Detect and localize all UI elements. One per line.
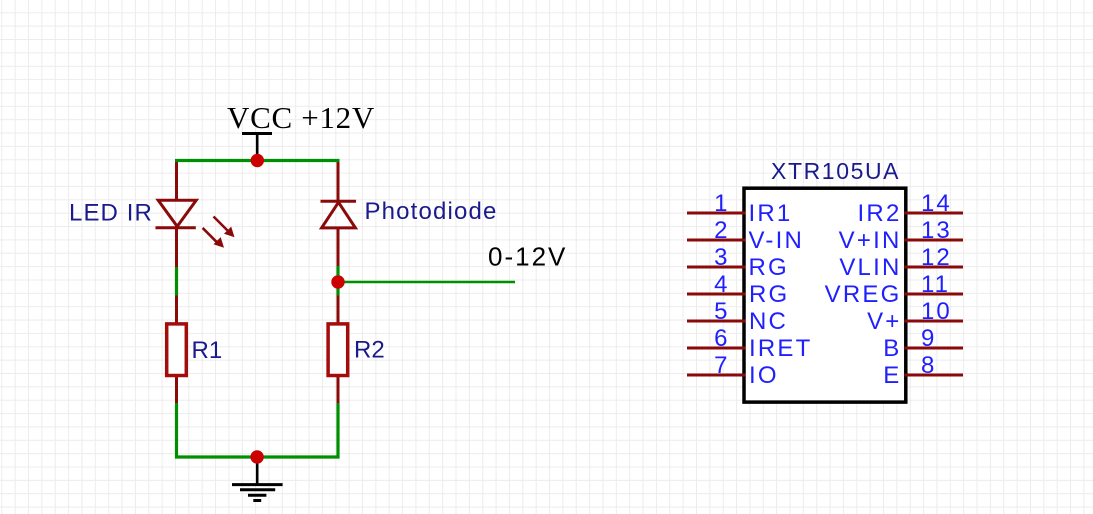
resistor R2 top pin: [337, 296, 340, 325]
svg-text:7: 7: [714, 352, 729, 379]
svg-text:IR2: IR2: [858, 200, 902, 227]
junction 0-12V tap: [331, 275, 344, 288]
svg-text:VLIN: VLIN: [839, 254, 901, 281]
svg-text:2: 2: [714, 217, 729, 244]
svg-text:9: 9: [921, 325, 936, 352]
junction VCC node: [251, 154, 264, 167]
resistor R2 body: [328, 324, 348, 376]
pin 13 (V+IN): [839, 217, 963, 254]
svg-text:11: 11: [921, 271, 950, 298]
svg-text:1: 1: [714, 190, 729, 217]
IC U1 body: [744, 188, 906, 402]
pin 8 (E): [883, 352, 963, 389]
pin 12 (VLIN): [839, 244, 963, 281]
svg-text:8: 8: [921, 352, 936, 379]
pin 7 (IO): [687, 352, 779, 389]
photodiode body (cathode bar + triangle): [321, 201, 357, 228]
pin 11 (VREG): [825, 271, 963, 308]
LED "LED IR" anode pin: [175, 159, 178, 201]
svg-text:R2: R2: [354, 336, 385, 363]
photodiode anode pin: [337, 228, 340, 266]
svg-text:VCC +12V: VCC +12V: [227, 100, 375, 135]
svg-text:3: 3: [714, 244, 729, 271]
svg-text:RG: RG: [749, 254, 789, 281]
pin 10 (V+): [867, 298, 963, 335]
wire 0-12V tap horizontal: [338, 281, 515, 284]
resistor R1 top pin: [175, 296, 178, 325]
svg-text:13: 13: [921, 217, 952, 244]
wire bottom ground rail: [175, 455, 340, 458]
pin 4 (RG): [687, 271, 789, 308]
svg-text:V+IN: V+IN: [839, 227, 902, 254]
svg-text:LED IR: LED IR: [69, 200, 153, 227]
svg-text:RG: RG: [749, 281, 789, 308]
pin 1 (IR1): [687, 190, 792, 227]
svg-text:4: 4: [714, 271, 729, 298]
resistor R1 body: [167, 324, 187, 376]
svg-text:NC: NC: [749, 308, 788, 335]
pin 2 (V-IN): [687, 217, 804, 254]
LED light emission arrows: [203, 217, 235, 248]
svg-text:E: E: [883, 362, 901, 389]
svg-text:Photodiode: Photodiode: [365, 198, 498, 225]
svg-text:VREG: VREG: [825, 281, 902, 308]
pin 9 (B): [883, 325, 963, 362]
wire R2 to ground rail: [336, 403, 339, 459]
svg-text:V-IN: V-IN: [749, 227, 804, 254]
svg-text:IRET: IRET: [749, 335, 812, 362]
svg-text:V+: V+: [867, 308, 901, 335]
LED "LED IR" cathode pin: [175, 228, 178, 267]
svg-text:5: 5: [714, 298, 729, 325]
pin 5 (NC): [687, 298, 788, 335]
LED "LED IR" body (triangle + cathode bar): [156, 200, 197, 228]
ground symbol: [232, 457, 283, 501]
svg-text:IO: IO: [749, 362, 779, 389]
svg-text:10: 10: [921, 298, 952, 325]
resistor R2 bottom pin: [337, 376, 340, 404]
pin 6 (IRET): [687, 325, 812, 362]
power symbol VCC (bar and stem): [242, 134, 272, 161]
svg-text:6: 6: [714, 325, 729, 352]
svg-text:XTR105UA: XTR105UA: [771, 158, 900, 184]
svg-text:IR1: IR1: [749, 200, 793, 227]
svg-text:14: 14: [921, 190, 952, 217]
wire LED cathode to R1: [175, 267, 178, 296]
resistor R1 bottom pin: [175, 376, 178, 404]
pin 14 (IR2): [858, 190, 963, 227]
pin 3 (RG): [687, 244, 789, 281]
wire photodiode to R2 (node 0-12V): [336, 266, 339, 296]
photodiode cathode pin: [337, 159, 340, 203]
svg-text:R1: R1: [192, 337, 223, 364]
svg-text:0-12V: 0-12V: [488, 242, 567, 272]
wire R1 to ground rail: [175, 403, 178, 459]
wire top VCC rail: [175, 159, 340, 162]
svg-text:12: 12: [921, 244, 952, 271]
junction ground node: [250, 450, 263, 463]
svg-text:B: B: [883, 335, 901, 362]
